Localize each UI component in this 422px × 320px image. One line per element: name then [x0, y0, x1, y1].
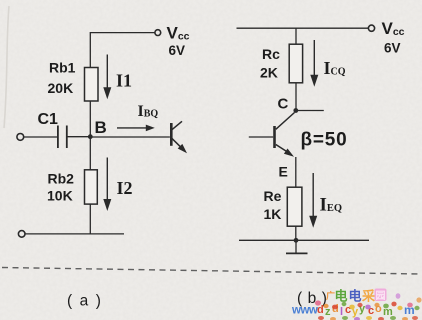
- resistor Rc: [289, 44, 302, 83]
- current arrow ICQ: [310, 40, 318, 87]
- current arrow IEQ: [309, 173, 317, 228]
- svg-text:I2: I2: [117, 178, 133, 198]
- wire C1 to node B: [67, 136, 91, 138]
- svg-text:C: C: [278, 96, 289, 113]
- wire Rb2 to bottom rail: [89, 204, 91, 234]
- input terminal (a): [17, 134, 24, 141]
- scan artifact left edge: [4, 6, 9, 128]
- current arrow I2: [103, 158, 111, 212]
- wire bottom rail (a): [25, 233, 124, 235]
- wire Re to ground rail: [295, 226, 297, 240]
- transistor Q2: [249, 113, 295, 157]
- node ground junction: [294, 238, 299, 243]
- watermark: [291, 289, 422, 320]
- svg-text:Rb1: Rb1: [49, 60, 76, 76]
- terminal Vcc (a): [155, 30, 161, 36]
- svg-text:20K: 20K: [48, 80, 74, 96]
- svg-text:C1: C1: [38, 111, 59, 128]
- svg-text:www: www: [291, 305, 318, 317]
- svg-text:6V: 6V: [384, 41, 401, 56]
- svg-text:d: d: [317, 304, 324, 316]
- svg-text:β=50: β=50: [301, 130, 348, 151]
- svg-text:Re: Re: [264, 188, 282, 204]
- transistor Q1: [171, 121, 187, 153]
- wire input to C1: [24, 136, 58, 138]
- wire node B to Q1 base: [90, 136, 170, 138]
- wire Rc to node C: [295, 83, 297, 111]
- node C: [293, 108, 298, 113]
- current arrow I1: [103, 55, 111, 100]
- svg-text:电: 电: [335, 289, 348, 304]
- wire Vcc rail (b): [237, 27, 369, 29]
- wire emitter to Re: [295, 157, 297, 187]
- wire Vcc rail (a): [90, 33, 155, 68]
- wire node C stub: [296, 110, 324, 112]
- svg-text:2K: 2K: [260, 65, 278, 81]
- svg-text:1K: 1K: [264, 206, 282, 222]
- svg-text:园: 园: [376, 290, 386, 302]
- svg-text:I1: I1: [116, 71, 132, 91]
- svg-text:Rc: Rc: [262, 46, 280, 62]
- resistor Re: [287, 187, 302, 226]
- wire node B to Rb2: [89, 137, 91, 170]
- svg-text:( a ): ( a ): [67, 293, 103, 310]
- svg-text:B: B: [95, 118, 107, 137]
- svg-text:E: E: [279, 164, 288, 180]
- svg-text:Rb2: Rb2: [48, 171, 75, 187]
- resistor Rb1: [85, 68, 99, 102]
- svg-text:电: 电: [349, 289, 362, 304]
- capacitor C1: [58, 126, 67, 149]
- divider dashed line: [2, 268, 420, 275]
- wire Rb1 to node B: [89, 101, 91, 137]
- wire rail to Rc: [295, 28, 297, 44]
- svg-text:l: l: [340, 306, 343, 318]
- resistor Rb2: [85, 170, 98, 204]
- current arrow IBQ: [117, 125, 155, 132]
- svg-text:采: 采: [361, 289, 376, 304]
- svg-text:10K: 10K: [47, 188, 73, 204]
- svg-text:6V: 6V: [169, 43, 186, 58]
- terminal Vcc (b): [368, 25, 374, 31]
- bottom terminal (a): [18, 231, 25, 238]
- wire ground rail (b): [239, 239, 369, 241]
- ground: [286, 240, 308, 253]
- node B: [88, 134, 93, 139]
